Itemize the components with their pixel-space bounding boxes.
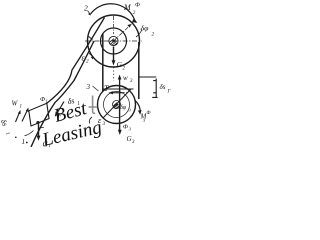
pulley 2 inner circle (101, 28, 127, 54)
svg-text:W: W (12, 100, 19, 108)
svg-text:F: F (57, 112, 63, 120)
pulley 2 outer circle (88, 15, 140, 67)
watermark t overlay (89, 96, 98, 114)
arrow w1 (16, 111, 20, 122)
svg-text:2: 2 (86, 59, 89, 65)
pulley 2 center dot (112, 40, 115, 43)
pulley 3 inner dashed line (113, 92, 129, 94)
svg-text:2: 2 (84, 4, 88, 13)
pulley 3 diagonal (103, 89, 131, 118)
small tick (40, 127, 44, 129)
svg-text:3: 3 (132, 140, 135, 145)
arrow G3/Phi3 down (119, 90, 121, 132)
pulley 2 hub (109, 36, 118, 45)
svg-text:M: M (123, 3, 132, 12)
pulley 2 centerline vertical below (dots) (113, 67, 115, 81)
moment arc M3 arrowhead (138, 110, 142, 115)
angle arc at block (25, 131, 34, 136)
svg-text:T: T (104, 84, 109, 93)
svg-text:3: 3 (86, 83, 91, 91)
pulley 3 top chord (104, 88, 134, 90)
svg-text:1: 1 (49, 144, 52, 147)
pulley 2 diagonal radius arrowhead (127, 24, 131, 28)
pulley 3 top arrow (left) (111, 92, 124, 94)
svg-text:1: 1 (46, 99, 48, 104)
epsilon-2 arc arrow (89, 54, 93, 59)
watermark Best (39, 98, 103, 151)
arrow delta-s1 (22, 109, 28, 122)
svg-text:2: 2 (123, 67, 126, 72)
svg-text:δs: δs (67, 96, 75, 106)
svg-text:3: 3 (103, 121, 106, 127)
rope to block (47, 18, 105, 104)
svg-text:w: w (123, 74, 128, 82)
svg-text:1: 1 (4, 131, 11, 136)
weight arrow G2 (113, 47, 115, 63)
svg-text:3: 3 (129, 108, 132, 113)
epsilon-3 arc (89, 117, 92, 124)
pulley 3 inner circle (104, 92, 130, 118)
delta-phi-2 arc (136, 30, 142, 38)
svg-text:G: G (127, 135, 132, 143)
moment arc M3 (135, 100, 141, 112)
right belt line (138, 42, 140, 99)
block 1 (29, 103, 49, 126)
tick on rope (89, 36, 93, 39)
svg-text:2: 2 (133, 10, 136, 16)
pulley 2 centerline horizontal dash-dot (85, 40, 142, 42)
incline line (31, 41, 94, 147)
svg-text:δφ: δφ (120, 105, 127, 111)
ds indicator bar (152, 79, 157, 98)
svg-text:1: 1 (22, 138, 26, 146)
pulley 2 diagonal radius dash-dot (114, 24, 132, 41)
svg-text:Ф: Ф (135, 3, 140, 9)
svg-text:δs: δs (0, 118, 10, 128)
label 3 leader (93, 86, 99, 91)
moment arc M2 arrowhead (132, 18, 137, 23)
svg-text:3: 3 (130, 79, 133, 84)
pulley 2 hub hatching (110, 39, 118, 46)
svg-text:δs: δs (160, 83, 166, 91)
pulley 3 hub (113, 101, 121, 109)
svg-text:Ф: Ф (147, 111, 151, 116)
svg-text:3: 3 (129, 127, 132, 132)
svg-text:δφ: δφ (141, 24, 150, 33)
arrow w3 (119, 78, 121, 93)
pulley 3 outer circle (98, 86, 136, 124)
left belt line (102, 34, 104, 92)
svg-text:2: 2 (152, 32, 155, 38)
svg-text:1: 1 (20, 105, 23, 110)
friction arrow F (56, 102, 64, 115)
label 2 leader (88, 11, 91, 15)
moment arc M2 (91, 4, 135, 20)
pulley 3 hub hatch (113, 103, 120, 109)
block center dot (36, 121, 39, 124)
weight arrow G1 (38, 124, 40, 138)
svg-text:Г: Г (167, 90, 171, 95)
svg-text:ε: ε (98, 116, 102, 125)
pulley 2 centerline vertical top (113, 16, 115, 34)
leader line to ds indicator (139, 76, 156, 78)
